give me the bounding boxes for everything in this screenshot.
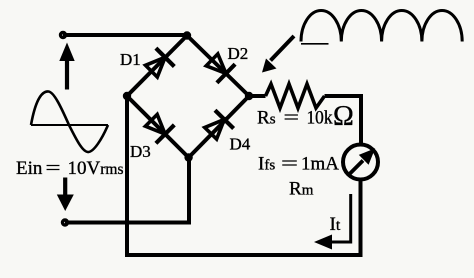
bridge edge bottom-left: [127, 96, 189, 158]
meter needle: [350, 161, 364, 175]
bridge edge top-left: [127, 36, 187, 97]
wire: bridge left node down and bottom rail to meter: [127, 96, 361, 255]
svg-text:D1: D1: [120, 50, 141, 69]
waveform baseline tick: [301, 43, 329, 45]
arrow from waveform to bridge output node: [271, 36, 295, 61]
svg-text:It: It: [330, 214, 341, 235]
terminal bottom-left: [63, 220, 68, 225]
wire: bridge right node to resistor and down to meter: [249, 96, 361, 144]
svg-text:Ein=10Vrms: Ein=10Vrms: [16, 158, 123, 179]
down arrow at input (left, bottom): [63, 178, 67, 197]
sine wave symbol axis: [31, 124, 108, 126]
svg-text:D2: D2: [228, 44, 249, 63]
resistor Rs zigzag: [266, 84, 325, 108]
wire top: from input terminal to bridge top node: [63, 33, 187, 37]
bridge edge top-right: [187, 36, 249, 97]
wire bottom terminal to bridge bottom node: [65, 158, 189, 223]
diode D3 (on bottom-left edge, pointing to bottom node): [145, 114, 174, 143]
It arrow: [332, 194, 351, 242]
svg-text:D4: D4: [230, 135, 251, 154]
node left: [123, 92, 131, 100]
rectified waveform (4 humps): [301, 10, 462, 41]
diode D1 (on top-left edge, pointing to top node): [146, 48, 175, 77]
bridge edge bottom-right: [189, 96, 249, 158]
svg-text:Rm: Rm: [289, 179, 314, 200]
terminal top-left: [61, 33, 66, 38]
node right: [245, 92, 253, 100]
meter M1 circle: [343, 145, 378, 180]
svg-text:D3: D3: [130, 142, 151, 161]
node top: [183, 31, 191, 39]
diode D2 (on top-right edge, pointing to right node): [206, 54, 235, 83]
sine wave symbol curve: [31, 91, 108, 152]
node bottom: [184, 153, 192, 161]
up arrow at input (left, top): [65, 60, 69, 90]
diode D4 (on bottom-right edge, pointing to right node): [205, 110, 234, 139]
